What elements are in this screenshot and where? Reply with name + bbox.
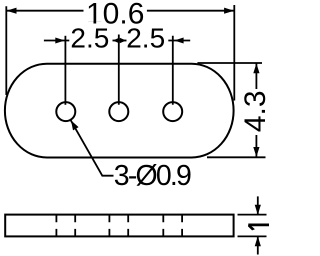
- arrowhead 10.6 right: [224, 8, 234, 14]
- hidden line hole H3 right: [181, 215, 183, 235]
- arrowhead 1 bottom: [255, 236, 261, 246]
- extension line top (4.3): [197, 62, 262, 64]
- dimension tail 2.5 right: [168, 40, 190, 42]
- dimension tail 2.5 middle: [113, 40, 127, 42]
- arrowhead 4.3 bottom: [253, 147, 259, 157]
- dimension line 10.6 left segment: [7, 10, 84, 12]
- dimension line 1 below: [257, 236, 259, 254]
- dimension line 10.6 right segment: [147, 10, 234, 12]
- dimension line 4.3 bottom segment: [255, 135, 257, 157]
- center line hole H2: [118, 35, 120, 105]
- dimension line 4.3 top segment: [255, 63, 257, 89]
- hidden line hole H1 right: [74, 215, 76, 235]
- hidden line hole H3 left: [162, 215, 164, 235]
- svg-text:2.5: 2.5: [70, 23, 109, 54]
- extension line left (10.6): [5, 6, 7, 95]
- hole H2: [109, 102, 128, 121]
- svg-text:4.3: 4.3: [239, 90, 269, 132]
- hole H1: [56, 102, 75, 121]
- hidden line hole H2 right: [127, 215, 129, 235]
- svg-text:2.5: 2.5: [126, 23, 165, 54]
- arrowhead 2.5 at H1: [55, 38, 65, 44]
- extension line bottom (1): [238, 235, 267, 237]
- hidden line hole H1 left: [55, 215, 57, 235]
- dimension text 1 (rotated, drawn): [248, 224, 269, 227]
- arrowhead 2.5 at H3: [174, 38, 183, 44]
- extension line bottom (4.3): [207, 156, 266, 158]
- arrowhead 1 top: [255, 205, 261, 215]
- plate outline (top view stadium): [5, 64, 234, 158]
- center line hole H1: [64, 36, 66, 105]
- hidden line hole H2 left: [108, 215, 110, 235]
- extension line top (1): [238, 214, 267, 216]
- svg-text:3-Ø0.9: 3-Ø0.9: [114, 160, 192, 192]
- arrowhead 2.5 at H2 right: [120, 38, 126, 43]
- arrowhead 2.5 at H2: [113, 38, 119, 43]
- dimension line 1 above: [257, 196, 259, 214]
- dimension tail 2.5 left: [44, 40, 69, 42]
- leader line 3-O0.9: [71, 120, 114, 176]
- arrowhead 10.6 left: [7, 8, 17, 14]
- hole H3: [163, 102, 182, 121]
- arrowhead leader at hole H1: [71, 120, 79, 130]
- arrowhead 4.3 top: [253, 63, 259, 73]
- center line hole H3: [172, 36, 174, 105]
- side view plate outline: [5, 215, 233, 237]
- extension line right (10.6): [233, 5, 235, 101]
